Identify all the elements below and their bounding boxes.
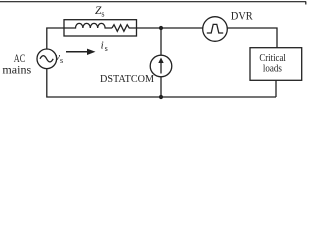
resistor Rs — [112, 25, 137, 32]
bottom rail wire — [47, 69, 276, 97]
svg-text:mains: mains — [2, 64, 31, 76]
ac source Vs — [37, 49, 57, 69]
current source DSTATCOM — [150, 55, 172, 77]
wire load box bottom to rail — [275, 80, 277, 97]
wire AC top to Zs box — [47, 28, 64, 49]
svg-text:DSTATCOM: DSTATCOM — [100, 73, 154, 85]
wire junction down to DSTATCOM — [160, 28, 162, 55]
arrow i_s — [66, 51, 88, 53]
node junction top — [159, 26, 163, 30]
wire DSTATCOM bottom to rail — [160, 77, 162, 97]
series source DVR — [203, 17, 228, 42]
inductor Ls — [64, 23, 112, 28]
svg-text:DVR: DVR — [231, 8, 253, 22]
node junction bottom — [159, 95, 163, 99]
load box Critical loads — [250, 48, 302, 81]
wire DVR to critical loads — [227, 28, 277, 48]
svg-text:AC: AC — [14, 53, 25, 65]
wire Zs box to DVR — [137, 27, 203, 29]
top border rule — [0, 2, 306, 5]
svg-text:loads: loads — [263, 63, 282, 75]
impedance Zs box — [64, 20, 137, 36]
